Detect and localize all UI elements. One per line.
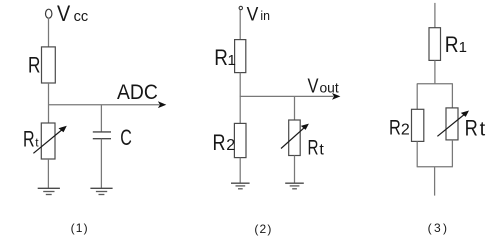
svg-text:V: V <box>308 75 320 97</box>
arrowhead Vout <box>332 93 340 100</box>
wire bottom bus <box>417 166 453 168</box>
svg-text:V: V <box>57 1 70 26</box>
svg-text:R: R <box>213 130 226 155</box>
thermistor Rt body <box>289 120 301 156</box>
svg-text:R: R <box>445 32 459 57</box>
resistor R1 <box>429 28 441 61</box>
label Rt <box>23 127 39 152</box>
svg-text:R: R <box>214 45 228 70</box>
wire top lead <box>434 3 436 28</box>
svg-text:out: out <box>320 79 339 95</box>
label Vout <box>308 75 339 97</box>
caption (2) <box>254 222 271 236</box>
node B horizontal wire to Vout <box>240 95 334 97</box>
ground under C <box>90 188 112 194</box>
wire right rail lower <box>451 140 453 167</box>
resistor R2 <box>412 109 424 141</box>
wire node to thermistor Rt <box>294 96 296 120</box>
svg-text:V: V <box>247 4 259 25</box>
svg-text:(1): (1) <box>71 221 88 235</box>
ground under R2 <box>231 183 250 189</box>
svg-text:t: t <box>319 142 324 159</box>
wire Vcc to R <box>48 18 50 47</box>
svg-text:1: 1 <box>228 52 236 69</box>
capacitor C plates <box>93 132 111 139</box>
wire Vin to R1 <box>239 10 241 40</box>
wire bottom lead <box>434 167 436 196</box>
label R2 <box>389 116 410 139</box>
svg-text:R: R <box>465 115 478 140</box>
wire C to ground <box>100 139 102 189</box>
svg-text:in: in <box>260 8 270 23</box>
wire top bus <box>417 83 453 85</box>
wire R1 to parallel bus <box>434 60 436 83</box>
caption (3) <box>428 221 447 235</box>
label Vin <box>247 4 270 25</box>
svg-text:2: 2 <box>401 121 410 138</box>
label Rt <box>308 137 325 160</box>
wire right rail upper <box>451 84 453 108</box>
svg-text:(2): (2) <box>254 222 271 236</box>
resistor R2 <box>234 123 246 157</box>
wire R2 to ground <box>239 158 241 184</box>
svg-text:R: R <box>23 127 35 152</box>
caption (1) <box>71 221 88 235</box>
svg-text:t: t <box>480 118 486 140</box>
arrowhead ADC <box>158 101 166 108</box>
svg-text:R: R <box>308 137 319 160</box>
thermistor Rt body <box>446 108 458 140</box>
svg-text:ADC: ADC <box>117 81 158 104</box>
thermistor Rt arrow <box>437 111 469 137</box>
svg-text:cc: cc <box>74 8 89 25</box>
label R <box>28 52 40 77</box>
terminal Vin <box>239 6 242 9</box>
label R1 <box>214 45 236 70</box>
wire left rail lower <box>416 141 418 166</box>
svg-text:t: t <box>35 136 39 150</box>
resistor R <box>42 47 56 83</box>
label Rt <box>465 115 486 140</box>
wire R1 to node B <box>239 73 241 124</box>
wire Rt to ground <box>47 159 49 188</box>
node A horizontal wire to ADC <box>48 104 160 106</box>
label R1 <box>445 32 467 57</box>
ground under Rt <box>285 183 304 189</box>
svg-text:1: 1 <box>459 39 467 56</box>
svg-text:R: R <box>389 116 401 139</box>
thermistor Rt arrow <box>33 126 66 154</box>
svg-text:(3): (3) <box>428 221 447 235</box>
wire left rail upper <box>416 84 418 110</box>
svg-text:R: R <box>28 52 40 77</box>
resistor R1 <box>235 40 246 73</box>
svg-text:2: 2 <box>226 137 235 154</box>
label ADC <box>117 81 158 104</box>
label C <box>120 125 132 150</box>
wire R to node A <box>48 83 50 123</box>
label R2 <box>213 130 236 155</box>
thermistor Rt arrow <box>281 124 309 149</box>
label Vcc <box>57 1 89 26</box>
svg-text:C: C <box>120 125 132 150</box>
thermistor Rt body <box>41 123 55 159</box>
wire node to capacitor C <box>100 105 102 132</box>
wire Rt to ground <box>294 156 296 184</box>
terminal Vcc <box>46 9 52 18</box>
ground under Rt <box>38 188 60 194</box>
